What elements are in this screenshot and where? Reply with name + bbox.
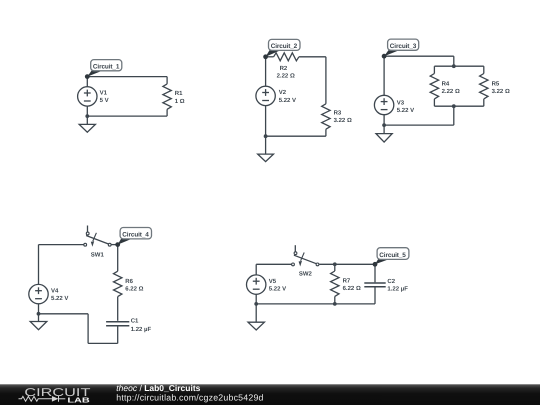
svg-text:1.22 µF: 1.22 µF: [387, 286, 408, 293]
svg-text:R1: R1: [175, 90, 183, 97]
svg-text:R2: R2: [280, 65, 288, 72]
svg-text:SW2: SW2: [299, 270, 313, 277]
svg-text:5.22 V: 5.22 V: [397, 107, 414, 114]
svg-text:1.22 µF: 1.22 µF: [131, 326, 152, 333]
svg-text:V5: V5: [269, 278, 277, 285]
svg-text:6.22 Ω: 6.22 Ω: [125, 286, 143, 293]
svg-text:V1: V1: [100, 90, 108, 97]
svg-text:Circuit_4: Circuit_4: [122, 232, 149, 239]
svg-text:5.22 V: 5.22 V: [51, 295, 68, 302]
svg-text:SW1: SW1: [91, 251, 105, 258]
svg-text:LAB: LAB: [67, 395, 89, 404]
svg-text:R4: R4: [442, 80, 450, 87]
svg-text:3.22 Ω: 3.22 Ω: [334, 117, 352, 124]
svg-text:R3: R3: [334, 109, 342, 116]
svg-text:R5: R5: [492, 81, 500, 88]
svg-text:Circuit_1: Circuit_1: [93, 63, 120, 70]
svg-text:Circuit_5: Circuit_5: [379, 252, 406, 259]
svg-text:5 V: 5 V: [100, 97, 109, 104]
svg-text:6.22 Ω: 6.22 Ω: [343, 285, 361, 292]
svg-text:Circuit_3: Circuit_3: [390, 43, 417, 50]
svg-text:V4: V4: [51, 287, 59, 294]
svg-text:3.22 Ω: 3.22 Ω: [492, 88, 510, 95]
svg-text:2.22 Ω: 2.22 Ω: [277, 73, 295, 80]
svg-text:theoc / Lab0_Circuits: theoc / Lab0_Circuits: [116, 383, 200, 393]
svg-text:V2: V2: [279, 89, 287, 96]
svg-text:R7: R7: [343, 278, 351, 285]
svg-text:C1: C1: [131, 318, 139, 325]
svg-text:5.22 V: 5.22 V: [279, 97, 296, 104]
svg-text:1 Ω: 1 Ω: [175, 98, 185, 105]
svg-text:Circuit_2: Circuit_2: [271, 43, 298, 50]
svg-text:5.22 V: 5.22 V: [269, 286, 286, 293]
svg-text:V3: V3: [397, 99, 405, 106]
svg-text:C2: C2: [387, 278, 395, 285]
svg-text:http://circuitlab.com/cgze2ubc: http://circuitlab.com/cgze2ubc5429d: [116, 393, 263, 403]
svg-text:R6: R6: [125, 278, 133, 285]
svg-text:2.22 Ω: 2.22 Ω: [442, 88, 460, 95]
